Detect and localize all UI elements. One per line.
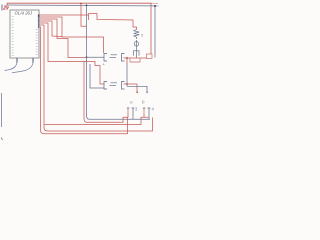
wire row1 rail: [124, 57, 147, 59]
wire blue drop row1 to Q2: [126, 63, 128, 86]
wire red tail: [151, 2, 158, 4]
wire q4 stub: [148, 116, 150, 119]
node junction dot: [86, 4, 88, 6]
left margin scan line: [1, 93, 3, 127]
op-amp U1 pin dots: [38, 15, 39, 16]
transistor Q3: [127, 108, 135, 116]
transistor Q2 foot right: [146, 91, 148, 93]
wire top red rail: [7, 3, 151, 54]
battery B1 right plate: [122, 54, 125, 62]
node junction dot: [126, 83, 128, 85]
wire pin17 net: [40, 17, 104, 53]
wire pin19 net: [40, 19, 87, 58]
op-amp U1 bottom pins: [16, 58, 18, 63]
op-amp U1 right inner pin marks: [36, 30, 38, 55]
wire pin25 net: [40, 25, 153, 131]
wire blue to battery B1: [87, 56, 105, 58]
wire pin23 net: [40, 23, 104, 84]
svg-text:OLAI 26J: OLAI 26J: [15, 11, 33, 16]
wire q4 red stub: [143, 114, 145, 118]
wire blue trunk: [87, 5, 151, 119]
wire pin15 net: [40, 14, 137, 30]
transistor Q4: [143, 108, 151, 116]
capacitor C1 box: [133, 49, 140, 58]
wire top blue rail: [7, 5, 155, 58]
wire bottom pin curl B: [12, 63, 33, 73]
wire bottom pin curl A: [5, 63, 18, 71]
wire staple: [130, 58, 140, 62]
wire blue tail: [155, 5, 159, 7]
battery B2 right plate: [122, 82, 125, 90]
LED D1: [134, 42, 139, 47]
wire rail left tail: [6, 3, 8, 8]
wire q3 stub: [132, 116, 134, 119]
transistor Q2 foot left: [136, 91, 138, 93]
op-amp U1 microcontroller body: [10, 10, 39, 58]
wire comp4 branch: [45, 117, 149, 124]
node junction dot: [154, 5, 156, 7]
scan tick bottom left: [1, 138, 2, 141]
wire comp3 drop: [127, 117, 129, 134]
op-amp U1 left pin marks: [12, 17, 14, 56]
wire pin21 net: [40, 21, 62, 37]
wire blue to battery B2: [90, 64, 104, 88]
node junction dot: [80, 3, 82, 5]
wire red drop stub: [126, 59, 128, 64]
battery B1 bars: [110, 55, 118, 58]
node junction dot: [86, 56, 88, 58]
battery B2 bars: [110, 83, 118, 86]
transistor Q2 rail: [127, 86, 147, 91]
op-amp U1 right edge pin ticks: [38, 14, 40, 27]
scan tick: [1, 5, 3, 11]
battery B1 left plate: [104, 54, 107, 62]
wire row2 red branch: [124, 84, 138, 92]
node junction dot: [126, 57, 128, 59]
battery B2 left plate: [104, 82, 107, 90]
wire red bus to bottom row: [84, 62, 128, 123]
wire pin27 net: [40, 27, 128, 134]
resistor R5: [134, 30, 139, 40]
wire red drop from rail: [81, 3, 87, 26]
fuse F1: [147, 54, 153, 59]
op-amp U1 right edge pin stubs: [38, 15, 40, 27]
